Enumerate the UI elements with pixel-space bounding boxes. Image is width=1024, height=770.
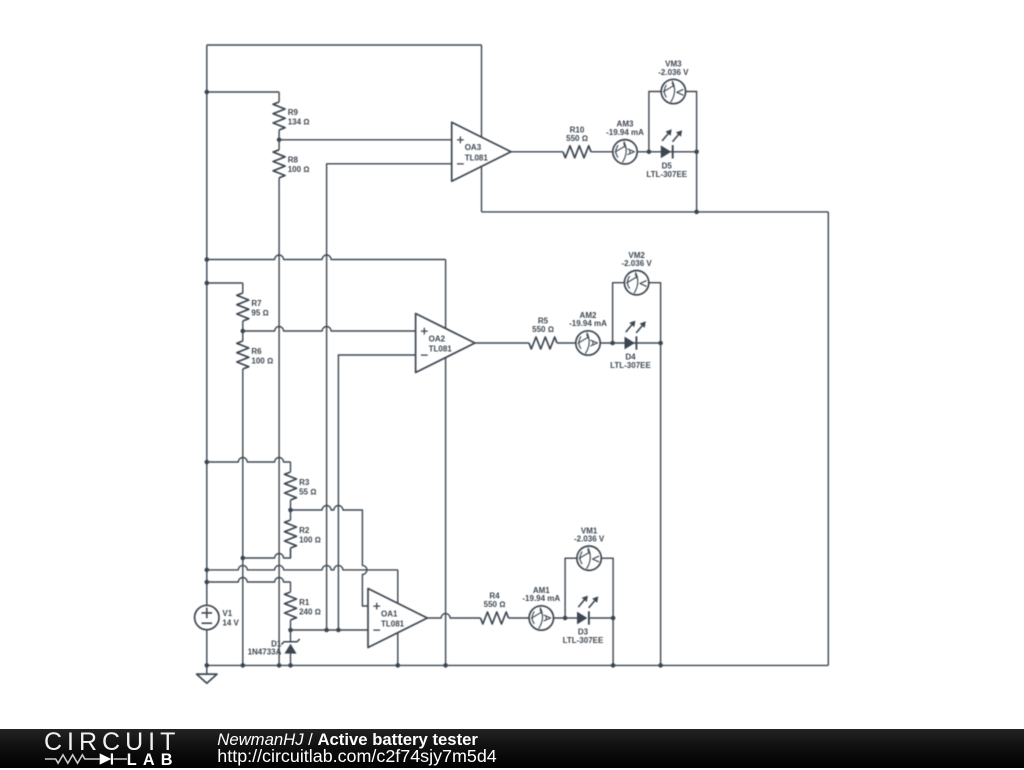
svg-text:R9: R9 [288,108,299,117]
wire OA1 power vertical [397,570,399,666]
wire D3 cathode to node [590,617,613,619]
wire OA3 output to R10 [511,151,563,153]
node D3 return/ground [611,663,616,668]
svg-text:1N4733A: 1N4733A [248,647,282,656]
svg-text:R7: R7 [251,299,262,308]
resistor R3 [285,462,317,510]
node D5 return/OA3 V- [694,210,699,215]
resistor R8 [273,140,309,188]
svg-text:-2.036 V: -2.036 V [658,68,689,77]
node D5 anode/VM3 [647,150,652,155]
svg-text:134 Ω: 134 Ω [288,117,310,126]
ammeter AM1 [522,586,560,630]
svg-text:550 Ω: 550 Ω [532,325,554,334]
node D3 cathode/VM1 [611,616,616,621]
wire +14V top rail [207,44,482,46]
wire OA1 output to R4 [427,614,480,619]
ground [197,665,217,683]
wire R4 to AM1 to D3 node [509,617,566,619]
svg-text:V1: V1 [222,609,232,618]
node D4 cathode/VM2 [658,341,663,346]
svg-text:TL081: TL081 [381,620,405,629]
svg-text:550 Ω: 550 Ω [566,134,588,143]
svg-text:LTL-307EE: LTL-307EE [563,636,604,645]
svg-text:100 Ω: 100 Ω [288,165,310,174]
wire VM2 loop [613,283,661,343]
node rail/OA1 V+ branch [205,568,210,573]
wire R7 branch [207,282,243,284]
wire D3 node to ground [612,618,614,665]
wire OA3 + input [279,139,452,141]
resistor R4 [481,592,509,624]
voltmeter VM2 [621,251,652,295]
wire OA3 V- to right rail [482,211,829,213]
node D4 return/ground [658,663,663,668]
svg-text:R3: R3 [299,478,310,487]
ammeter AM3 [606,120,644,164]
wire D4 node to ground [660,343,662,665]
svg-text:240 Ω: 240 Ω [299,607,321,616]
wire OA2 power vertical [445,260,447,666]
wire VM1 loop [565,558,613,618]
wire R9 branch [207,91,279,93]
wire V1 negative lead [206,630,208,666]
node rail/ground [205,663,210,668]
resistor R9 [273,92,309,140]
svg-text:R8: R8 [288,156,299,165]
svg-text:-19.94 mA: -19.94 mA [606,128,644,137]
svg-text:OA2: OA2 [429,334,446,343]
svg-text:100 Ω: 100 Ω [299,535,321,544]
wire R8 bottom to ground [278,188,280,666]
svg-text:R1: R1 [299,598,310,607]
svg-text:55 Ω: 55 Ω [299,487,316,496]
resistor R5 [529,317,557,349]
LED D3 [563,596,604,646]
svg-text:-19.94 mA: -19.94 mA [522,594,560,603]
wire OA1 - input [291,629,369,631]
wire OA2 - input [338,355,415,630]
wire D4 leads [613,342,661,344]
node OA2 V-/ground [443,663,448,668]
LED D4 [610,321,651,371]
resistor R7 [237,283,269,331]
svg-text:OA3: OA3 [465,143,482,152]
node R9/R8 tap [277,138,282,143]
wire left +14V rail [206,45,208,605]
node rail/OA2 V+ branch [205,257,210,262]
wire D5 leads [649,151,697,153]
resistor R2 [285,510,321,558]
op-amp U3 OA3 [452,122,511,181]
node D1/ground [288,663,293,668]
wire OA2 output to R5 [475,342,529,344]
wire D5 node to V- wire [696,152,698,212]
node OA3 - feedback [324,628,329,633]
wire R10 to AM3 to D5 node [591,151,649,153]
wire R5 to AM2 to D4 node [557,342,613,344]
wire R3 branch [207,458,291,463]
footer title text [217,732,478,749]
node rail/R9 branch [205,90,210,95]
svg-text:TL081: TL081 [429,345,453,354]
node R8/ground [277,663,282,668]
node D5 cathode/VM3 [694,150,699,155]
footer url text [217,748,496,766]
node rail/R1 branch [205,580,210,585]
svg-text:550 Ω: 550 Ω [484,600,506,609]
ammeter AM2 [569,311,607,355]
svg-text:-19.94 mA: -19.94 mA [569,319,607,328]
wire OA2 + input [243,327,416,332]
wire right rail down [827,212,829,666]
node R7/R6 tap [241,329,246,334]
LED D5 [646,129,687,179]
op-amp U1 OA1 [368,589,427,648]
node OA1 V-/ground [396,663,401,668]
op-amp U2 OA2 [416,314,475,373]
svg-text:TL081: TL081 [465,153,489,162]
voltmeter VM3 [658,60,689,104]
wire R1 branch [207,578,291,583]
wire R2 bottom jog to R6 net [243,548,291,558]
node R1/D1 reference [288,628,293,633]
wire node R3/R2 to OA1 + input [291,506,369,607]
node OA2 - feedback [336,628,341,633]
svg-text:LTL-307EE: LTL-307EE [646,170,687,179]
node R6/ground [241,663,246,668]
wire D3 anode lead [565,617,577,619]
svg-text:OA1: OA1 [381,609,398,618]
svg-text:R2: R2 [299,526,310,535]
svg-text:R6: R6 [251,347,262,356]
CircuitLab logo [44,728,180,757]
wire OA1 V+ branch [207,565,398,570]
resistor R1 [285,582,321,630]
svg-text:-2.036 V: -2.036 V [574,535,605,544]
node rail/R3 branch [205,460,210,465]
wire R6 bottom to ground [242,379,244,665]
svg-text:-2.036 V: -2.036 V [621,259,652,268]
wire OA3 power feed / V- return [481,45,483,212]
zener diode D1 [248,630,300,665]
voltage source V1 [195,605,240,629]
node R2/R6 junction [241,556,246,561]
node R3/R2 tap [288,508,293,513]
wire OA2 V+ branch [207,255,446,260]
wire ground bottom rail [207,664,829,666]
svg-text:95 Ω: 95 Ω [251,308,268,317]
wire VM3 loop [649,92,697,152]
svg-text:LTL-307EE: LTL-307EE [610,361,651,370]
voltmeter VM1 [574,526,605,570]
svg-text:100 Ω: 100 Ω [251,356,273,365]
node D4 anode/VM2 [610,341,615,346]
svg-text:14 V: 14 V [222,618,239,627]
node D3 anode/VM1 [563,616,568,621]
node rail/R7 branch [205,281,210,286]
resistor R6 [237,331,273,379]
resistor R10 [563,126,591,158]
wire OA3 - input [327,164,452,630]
